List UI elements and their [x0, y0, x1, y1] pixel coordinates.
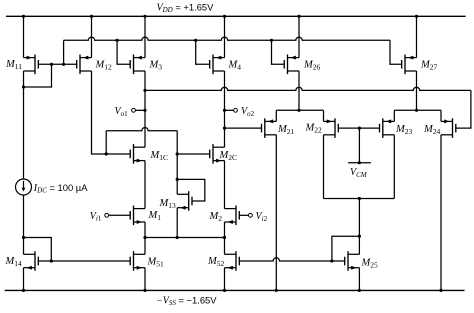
svg-text:−VSS = −1.65V: −VSS = −1.65V: [156, 294, 217, 307]
